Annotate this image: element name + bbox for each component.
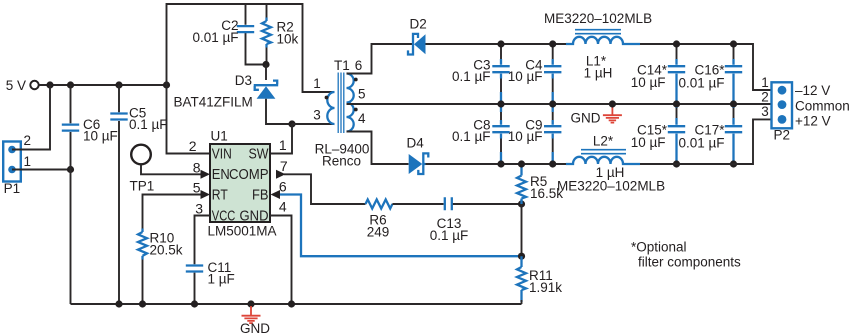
ground symbol bottom	[240, 306, 270, 334]
svg-text:+12 V: +12 V	[795, 114, 831, 129]
wire D2 cathode-side rail (-12V)	[426, 43, 567, 45]
node common/C4/C9	[549, 100, 556, 107]
svg-text:Common: Common	[795, 99, 850, 114]
svg-text:2: 2	[189, 138, 197, 154]
diode D4	[407, 135, 429, 175]
svg-text:10k: 10k	[277, 32, 299, 47]
node -12V/C3	[497, 40, 504, 47]
node rail/C11	[191, 300, 198, 307]
svg-text:10 µF: 10 µF	[631, 135, 666, 150]
node rail/U1 pin4	[288, 300, 295, 307]
svg-text:ME3220–102MLB: ME3220–102MLB	[544, 11, 652, 26]
svg-text:3: 3	[761, 104, 769, 119]
wire VIN feed	[167, 85, 211, 154]
capacitor C6	[62, 117, 118, 144]
svg-text:EN: EN	[212, 167, 230, 183]
arrow into FB	[271, 190, 281, 199]
svg-text:L2*: L2*	[593, 133, 614, 148]
terminal 5V input	[6, 78, 39, 93]
svg-text:*Optional: *Optional	[631, 240, 687, 255]
svg-text:6: 6	[355, 58, 363, 73]
svg-text:D3: D3	[235, 73, 252, 88]
svg-text:D4: D4	[407, 135, 425, 150]
resistor R10	[138, 230, 183, 257]
T1 secondary polarity dot upper	[354, 78, 358, 82]
svg-text:2: 2	[761, 90, 769, 105]
svg-text:1: 1	[279, 137, 287, 153]
wire R6 to C13	[392, 203, 443, 205]
wire COMP to R6	[284, 174, 366, 204]
wire R5 node down to FB node	[521, 204, 523, 256]
svg-text:0.1 µF: 0.1 µF	[452, 129, 491, 144]
svg-text:8: 8	[193, 159, 201, 175]
svg-text:4: 4	[279, 198, 287, 214]
svg-text:7: 7	[280, 158, 288, 174]
svg-text:10 µF: 10 µF	[631, 75, 666, 90]
op-amp U1 LM5001MA body	[208, 129, 277, 239]
resistor R2	[262, 20, 299, 47]
svg-text:10 µF: 10 µF	[83, 129, 118, 144]
svg-text:1 µF: 1 µF	[208, 272, 235, 287]
node -12V/L1/C14	[673, 40, 680, 47]
capacitor C15	[631, 104, 685, 164]
svg-text:1: 1	[761, 75, 769, 90]
svg-text:GND: GND	[571, 111, 601, 126]
wire C5 vertical	[118, 85, 120, 304]
wire P1 pin2 to 5V rail	[12, 85, 50, 150]
wire +12V rail right	[640, 119, 782, 164]
wire bottom ground rail	[71, 303, 522, 305]
svg-text:P2: P2	[774, 128, 791, 143]
node 5V/C5	[115, 81, 122, 88]
wire T1 pin4 to D4	[347, 132, 409, 165]
svg-text:5: 5	[358, 87, 366, 102]
node rail/GND symbol	[247, 300, 254, 307]
capacitor C16	[678, 44, 742, 104]
svg-text:GND: GND	[240, 208, 269, 224]
svg-text:3: 3	[313, 108, 321, 123]
capacitor C4	[508, 44, 562, 104]
wire common rail from T1 pin5	[347, 103, 778, 105]
svg-text:VIN: VIN	[212, 146, 232, 162]
svg-text:1 µH: 1 µH	[584, 66, 613, 81]
resistor R5	[517, 164, 563, 204]
svg-text:U1: U1	[211, 129, 228, 144]
node +12V/R5	[518, 160, 525, 167]
node common/C3/C8	[497, 100, 504, 107]
wire 5V rail	[39, 84, 167, 86]
wire C6 vertical / left ground drop	[70, 85, 72, 304]
transformer T1 core	[334, 58, 350, 133]
transformer T1 secondary winding	[347, 74, 354, 132]
svg-text:SW: SW	[249, 146, 269, 162]
node -12V/C4/L1	[549, 40, 556, 47]
wire top loop	[167, 4, 335, 92]
svg-text:0.1 µF: 0.1 µF	[430, 228, 469, 243]
node -12V/C16	[730, 40, 737, 47]
svg-text:5: 5	[193, 180, 201, 196]
node 5V/P1-2	[46, 81, 53, 88]
svg-text:0.1 µF: 0.1 µF	[129, 117, 168, 132]
connector P1	[3, 142, 21, 197]
svg-text:TP1: TP1	[130, 179, 155, 194]
svg-text:20.5k: 20.5k	[150, 242, 183, 257]
T1 secondary polarity dot lower	[354, 108, 358, 112]
diode D3	[174, 73, 279, 110]
wire TP1 to EN	[141, 164, 202, 174]
svg-text:10 µF: 10 µF	[508, 129, 543, 144]
wire node to T1 pin3	[292, 123, 334, 125]
svg-text:4: 4	[358, 111, 366, 126]
svg-text:D2: D2	[410, 16, 427, 31]
svg-text:ME3220–102MLB: ME3220–102MLB	[557, 178, 665, 193]
node R5/C13	[518, 200, 525, 207]
resistor R6	[366, 200, 393, 240]
svg-text:BAT41ZFILM: BAT41ZFILM	[174, 95, 253, 110]
svg-text:COMP: COMP	[229, 167, 269, 183]
wire +12V rail from D4	[426, 163, 567, 165]
capacitor C11	[186, 260, 235, 287]
svg-text:LM5001MA: LM5001MA	[208, 224, 277, 239]
wire R10 to ground rail	[141, 256, 143, 260]
svg-text:0.1 µF: 0.1 µF	[452, 69, 491, 84]
capacitor C3	[452, 44, 510, 104]
capacitor C2	[192, 18, 254, 45]
svg-text:0.01 µF: 0.01 µF	[192, 30, 238, 45]
node common/C14/C15	[673, 100, 680, 107]
svg-text:–12 V: –12 V	[795, 83, 830, 98]
svg-text:1: 1	[24, 154, 32, 169]
diode D2	[408, 16, 427, 55]
node P1-1/C6 vertical	[67, 166, 74, 173]
node +12V/C17	[730, 160, 737, 167]
capacitor C9	[508, 104, 562, 164]
svg-text:10 µF: 10 µF	[508, 69, 543, 84]
node 5V/C6	[67, 81, 74, 88]
svg-text:VCC: VCC	[212, 208, 236, 224]
node +12V/C15/L2	[673, 160, 680, 167]
svg-text:0.01 µF: 0.01 µF	[678, 76, 724, 91]
capacitor C8	[452, 104, 510, 164]
ground symbol middle	[571, 106, 622, 126]
connector P2	[772, 82, 793, 142]
node rail/C5	[115, 300, 122, 307]
wire GND pin 4 drop	[270, 216, 292, 305]
svg-text:6: 6	[279, 178, 287, 194]
wire P1 pin1 to ground vertical	[12, 169, 71, 171]
svg-text:5 V: 5 V	[6, 78, 26, 93]
capacitor C17	[678, 104, 742, 164]
svg-text:2: 2	[24, 133, 32, 148]
wire FB blue feedback	[279, 195, 522, 257]
node common/C16/C17	[730, 100, 737, 107]
svg-text:1: 1	[313, 76, 321, 91]
wire R2 leads	[266, 4, 268, 65]
node +12V/C9/L2	[549, 160, 556, 167]
capacitor C14	[631, 44, 685, 104]
T1 primary polarity dot	[325, 96, 329, 100]
node FB/R11	[518, 253, 525, 260]
inductor L1	[544, 11, 652, 81]
arrow into EN	[201, 170, 211, 179]
node common/GND symbol	[609, 100, 616, 107]
wire D3 cathode lead	[265, 65, 267, 81]
svg-text:249: 249	[367, 225, 390, 240]
capacitor C5	[110, 106, 167, 133]
resistor R11	[517, 256, 562, 304]
svg-text:RT: RT	[212, 188, 228, 204]
svg-text:3: 3	[195, 200, 203, 216]
wire D3 anode to node	[266, 99, 292, 124]
wire RT to R10	[143, 195, 203, 229]
wire VCC to C11	[195, 216, 211, 305]
label RL-9400 Renco	[315, 142, 370, 169]
svg-text:P1: P1	[4, 181, 21, 196]
transformer T1 primary winding	[327, 92, 334, 124]
wire C13 to R5 node	[453, 203, 522, 205]
svg-text:T1: T1	[334, 58, 350, 73]
wire -12V rail right	[640, 44, 782, 90]
node 5V/VIN	[163, 81, 170, 88]
svg-text:1.91k: 1.91k	[529, 280, 562, 295]
svg-text:Renco: Renco	[322, 154, 361, 169]
inductor L2	[557, 133, 665, 193]
test point TP1	[130, 145, 155, 194]
svg-text:0.01 µF: 0.01 µF	[678, 136, 724, 151]
note optional filter components	[631, 240, 741, 270]
node rail/R10	[139, 300, 146, 307]
capacitor C13	[430, 197, 469, 243]
arrow into RT	[201, 190, 211, 199]
wire C2 lead	[246, 4, 267, 65]
wire node to SW pin	[270, 124, 292, 154]
wire T1 pin6 to D2	[347, 44, 413, 74]
node C2/R2/D3	[262, 61, 269, 68]
svg-text:filter components: filter components	[638, 254, 741, 269]
svg-text:GND: GND	[240, 321, 270, 334]
node D3/T1-3/SW	[288, 120, 295, 127]
arrow out of COMP	[276, 170, 286, 179]
node +12V/C8	[497, 160, 504, 167]
svg-text:FB: FB	[252, 188, 269, 204]
